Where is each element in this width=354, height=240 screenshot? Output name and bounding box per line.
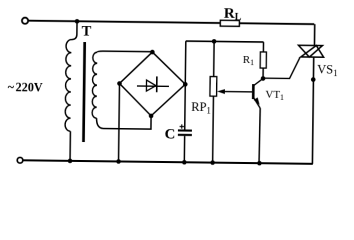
wire top rail [28,21,314,24]
svg-text:RL: RL [224,6,242,23]
wire wiper / base [223,91,252,93]
wire secondary bottom to bridge [96,115,151,129]
wire bridge left vertex to bottom rail [118,83,121,161]
potentiometer RP1 body [210,77,217,97]
node bridge right vertex [183,82,188,87]
wire bridge right vertex vertical (dc+) [185,41,186,130]
triac VS1 [298,45,322,57]
transformer core [83,42,84,142]
svg-text:R1: R1 [243,54,255,67]
node bridge top vertex [150,50,155,55]
wiper arrowhead [217,89,225,94]
transistor VT1 collector [254,78,263,85]
node bridge left vertex [117,81,122,86]
wire primary bottom [69,131,71,161]
svg-text:C: C [165,127,176,143]
potentiometer RP1 wire bottom [212,96,215,162]
transistor VT1 emitter [253,97,260,108]
svg-text:VT1: VT1 [265,89,284,102]
node capacitor on rail [182,160,187,165]
transformer T primary winding [65,40,72,132]
wire triac cathode to bottom rail [312,57,313,164]
resistor R1 wire top [262,42,264,52]
resistor R1 wire bottom [262,68,264,78]
capacitor C [178,129,192,131]
wire capacitor bottom [183,136,185,162]
node primary-top junction [75,19,80,24]
node collector junction [261,76,266,81]
bridge rectifier diamond [119,52,186,117]
node emitter on rail [257,161,262,166]
node primary bottom on rail [68,159,73,164]
wire dc+ rail [186,40,264,43]
node on cathode line [311,77,316,82]
wire secondary top to bridge [97,51,152,53]
resistor R1 body [260,52,266,68]
wire emitter to rail [259,108,260,163]
potentiometer RP1 wire top [213,41,215,76]
emitter arrowhead [254,97,260,104]
resistor RL body [220,20,239,26]
wire primary drop [72,22,78,40]
wire bottom rail [23,160,313,164]
svg-text:~220V: ~220V [8,80,43,94]
wire triac anode from top rail [313,24,315,45]
node bridge bottom vertex [149,114,154,119]
svg-text:VS1: VS1 [317,62,338,78]
node rp1 top junction [212,39,217,44]
wire gate [263,57,300,79]
terminal bottom-left [17,157,23,163]
svg-text:T: T [82,24,92,40]
node bridge minus on rail [116,159,121,164]
transistor VT1 bar [252,84,255,99]
transformer secondary winding [92,52,97,118]
svg-text:RP1: RP1 [191,100,211,116]
node rp1 on rail [210,160,215,165]
diode inside bridge [137,85,169,87]
terminal top-left [22,18,28,24]
